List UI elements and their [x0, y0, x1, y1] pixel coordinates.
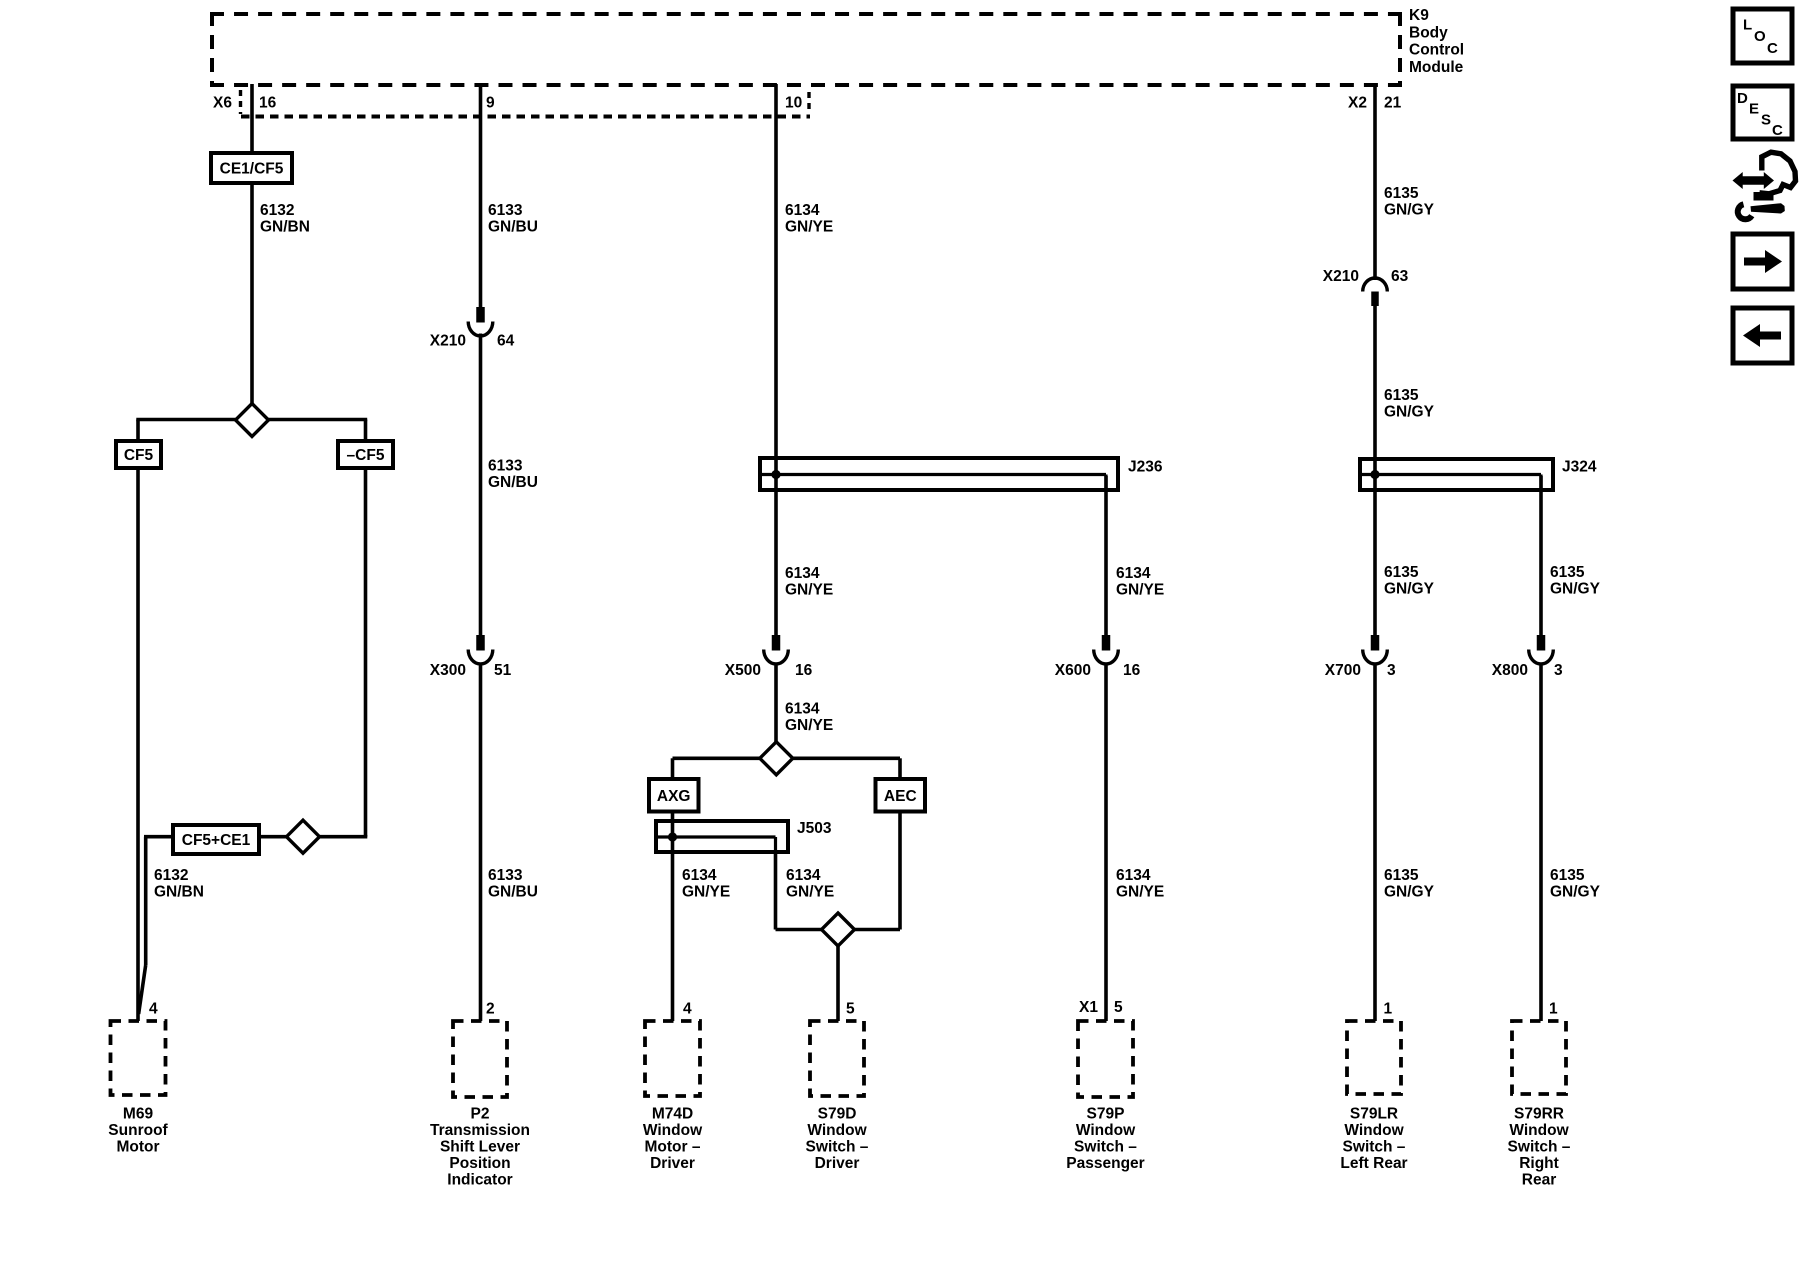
svg-text:4: 4 — [683, 1001, 692, 1018]
svg-text:Driver: Driver — [650, 1155, 695, 1172]
wire horizontal split to CF5 / -CF5 — [136, 418, 367, 422]
wire 6134 J236 to X600 — [1104, 476, 1108, 636]
wire 6133 X210 to X300 — [479, 334, 483, 637]
svg-text:X500: X500 — [725, 662, 761, 679]
svg-text:Control: Control — [1409, 42, 1464, 59]
wire label 6135 GN/GY left lower — [1384, 867, 1435, 901]
svg-text:GN/YE: GN/YE — [1116, 884, 1164, 901]
svg-text:6134: 6134 — [682, 867, 717, 884]
circuit label AXG — [649, 779, 699, 812]
svg-text:Body: Body — [1409, 24, 1448, 41]
component M74D Window Motor - Driver — [643, 1021, 703, 1172]
wire label 6134 GN/YE below J503 left — [682, 867, 730, 901]
wire 6135 X210 through J324 to X700 — [1373, 305, 1377, 636]
svg-text:S79D: S79D — [818, 1106, 857, 1123]
circuit label AEC — [876, 779, 926, 812]
icon DESC button — [1733, 86, 1792, 139]
svg-text:K9: K9 — [1409, 7, 1429, 24]
circuit label CF5+CE1 — [173, 825, 259, 854]
wire label 6133 GN/BU middle — [488, 458, 538, 492]
svg-text:9: 9 — [486, 95, 495, 112]
svg-text:C: C — [1772, 122, 1783, 139]
svg-text:6135: 6135 — [1384, 387, 1419, 404]
wire label 6134 GN/YE above diamond — [785, 701, 833, 735]
svg-text:6134: 6134 — [785, 202, 820, 219]
wire label 6135 GN/GY left mid — [1384, 564, 1435, 598]
wire 6134 from pin 10 through J236 to X500 — [774, 84, 778, 636]
svg-text:AEC: AEC — [884, 788, 917, 805]
svg-text:J236: J236 — [1128, 459, 1163, 476]
wire -CF5 down to CF5+CE1 diamond — [319, 467, 367, 837]
connector X300 pin 51 — [430, 635, 512, 679]
wire label 6133 GN/BU upper — [488, 202, 538, 236]
connector X700 pin 3 — [1325, 635, 1396, 679]
wire label 6133 GN/BU lower — [488, 867, 538, 901]
svg-text:S79RR: S79RR — [1514, 1106, 1564, 1123]
wire label 6134 GN/YE to S79P — [1116, 867, 1164, 901]
pin label X6 16 — [213, 95, 277, 112]
wire CF5 down to M69 pin 4 — [136, 467, 140, 1021]
wire elbow down to -CF5 — [364, 420, 368, 443]
svg-text:Passenger: Passenger — [1066, 1155, 1144, 1172]
svg-text:5: 5 — [1114, 999, 1123, 1016]
connector X600 pin 16 — [1055, 635, 1141, 679]
svg-text:CF5+CE1: CF5+CE1 — [182, 832, 251, 849]
pin X1 5 at S79P — [1079, 999, 1123, 1016]
svg-text:GN/YE: GN/YE — [682, 884, 730, 901]
wire lower diamond to S79D pin 5 — [836, 945, 840, 1021]
wire 6133 X300 to P2 pin 2 — [479, 664, 483, 1022]
svg-text:Window: Window — [1076, 1122, 1136, 1139]
svg-text:O: O — [1754, 28, 1766, 45]
svg-text:–CF5: –CF5 — [347, 447, 385, 464]
wire label 6132 GN/BN lower — [154, 867, 204, 901]
wire 6133 from pin 9 to X210 — [479, 84, 483, 307]
svg-text:Driver: Driver — [815, 1155, 860, 1172]
svg-text:C: C — [1767, 40, 1778, 57]
svg-text:Motor –: Motor – — [645, 1139, 701, 1156]
svg-text:6133: 6133 — [488, 867, 523, 884]
svg-text:2: 2 — [486, 1001, 495, 1018]
svg-text:GN/BN: GN/BN — [154, 884, 204, 901]
svg-text:3: 3 — [1387, 662, 1396, 679]
wire label 6134 GN/YE left mid — [785, 565, 833, 599]
svg-text:6135: 6135 — [1550, 867, 1585, 884]
svg-text:X600: X600 — [1055, 662, 1091, 679]
svg-text:16: 16 — [795, 662, 813, 679]
splice diamond above AXG/AEC — [760, 742, 793, 775]
svg-text:GN/GY: GN/GY — [1550, 884, 1601, 901]
svg-text:Window: Window — [807, 1122, 867, 1139]
icon jump-to-wiring (double arrow, connector outline, wrench) — [1733, 152, 1796, 219]
wire AXG through J503 to M74D pin 4 — [671, 810, 675, 1021]
circuit label -CF5 — [338, 441, 393, 468]
splice diamond below CE1/CF5 — [236, 404, 269, 437]
svg-text:S: S — [1761, 112, 1771, 129]
svg-text:3: 3 — [1554, 662, 1563, 679]
svg-text:Motor: Motor — [116, 1139, 159, 1156]
splice diamond CF5+CE1 — [287, 820, 320, 853]
svg-text:X700: X700 — [1325, 662, 1361, 679]
icon forward arrow button — [1733, 234, 1792, 289]
svg-text:S79LR: S79LR — [1350, 1106, 1398, 1123]
svg-text:E: E — [1749, 101, 1759, 118]
svg-text:6135: 6135 — [1384, 564, 1419, 581]
svg-text:Switch –: Switch – — [806, 1139, 869, 1156]
svg-text:Window: Window — [1344, 1122, 1404, 1139]
svg-text:64: 64 — [497, 333, 515, 350]
pin label 9 — [486, 95, 495, 112]
wire label 6135 GN/GY upper — [1384, 185, 1435, 219]
wire AEC down to lower diamond — [853, 810, 900, 930]
svg-text:GN/BU: GN/BU — [488, 219, 538, 236]
svg-text:GN/YE: GN/YE — [785, 219, 833, 236]
svg-text:GN/BU: GN/BU — [488, 884, 538, 901]
pin 5 at S79D — [846, 1001, 855, 1018]
pin 1 at S79LR — [1384, 1001, 1393, 1018]
svg-text:X2: X2 — [1348, 95, 1367, 112]
pin label 10 — [785, 95, 802, 112]
svg-text:GN/GY: GN/GY — [1384, 884, 1435, 901]
svg-text:GN/BU: GN/BU — [488, 474, 538, 491]
svg-text:63: 63 — [1391, 268, 1409, 285]
svg-text:6133: 6133 — [488, 458, 523, 475]
component M69 Sunroof Motor — [108, 1021, 168, 1156]
wire 6135 J324 to X800 — [1539, 476, 1543, 636]
splice pack J236 — [760, 458, 1163, 490]
svg-text:4: 4 — [149, 1001, 158, 1018]
svg-text:S79P: S79P — [1087, 1106, 1125, 1123]
pin 1 at S79RR — [1549, 1001, 1558, 1018]
splice pack J503 — [656, 820, 832, 852]
wire split to AXG / AEC — [673, 758, 901, 780]
svg-text:Rear: Rear — [1522, 1172, 1556, 1189]
svg-text:GN/YE: GN/YE — [786, 884, 834, 901]
component S79LR Window Switch - Left Rear — [1340, 1021, 1407, 1172]
svg-text:GN/YE: GN/YE — [785, 717, 833, 734]
circuit label CF5 — [116, 441, 161, 468]
svg-text:GN/GY: GN/GY — [1384, 202, 1435, 219]
svg-text:X210: X210 — [1323, 268, 1359, 285]
svg-text:GN/GY: GN/GY — [1384, 581, 1435, 598]
wire label 6134 GN/YE upper — [785, 202, 833, 236]
wire label 6135 GN/GY right mid — [1550, 564, 1601, 598]
svg-text:6135: 6135 — [1384, 185, 1419, 202]
wire label 6132 GN/BN upper — [260, 202, 310, 236]
svg-text:J503: J503 — [797, 820, 832, 837]
splice diamond above S79D — [822, 913, 855, 946]
svg-text:6134: 6134 — [786, 867, 821, 884]
component S79P Window Switch - Passenger — [1066, 1021, 1144, 1172]
svg-text:GN/GY: GN/GY — [1550, 581, 1601, 598]
svg-text:AXG: AXG — [657, 788, 691, 805]
svg-text:GN/GY: GN/GY — [1384, 404, 1435, 421]
BCM X6 connector strip (dotted outline) — [241, 90, 811, 117]
wire 6132 from X6-16 to CE1/CF5 and diamond — [250, 84, 254, 405]
svg-text:Left Rear: Left Rear — [1340, 1155, 1407, 1172]
wire CF5+CE1 left elbow down to pin 4 — [139, 837, 174, 1014]
splice pack J324 — [1360, 459, 1597, 491]
svg-text:Shift Lever: Shift Lever — [440, 1139, 520, 1156]
wire 6135 X800 to S79RR pin 1 — [1539, 664, 1543, 1022]
svg-text:Module: Module — [1409, 59, 1464, 76]
svg-text:X300: X300 — [430, 662, 466, 679]
svg-text:X6: X6 — [213, 95, 232, 112]
svg-text:GN/YE: GN/YE — [1116, 582, 1164, 599]
svg-text:6134: 6134 — [1116, 565, 1151, 582]
svg-text:CE1/CF5: CE1/CF5 — [220, 161, 284, 178]
svg-text:Window: Window — [643, 1122, 703, 1139]
svg-text:D: D — [1737, 90, 1748, 107]
svg-text:21: 21 — [1384, 95, 1402, 112]
svg-text:GN/YE: GN/YE — [785, 582, 833, 599]
wire label 6135 GN/GY below X210 — [1384, 387, 1435, 421]
wire 6134 X600 to S79P pin 5 — [1104, 664, 1108, 1022]
svg-text:6135: 6135 — [1550, 564, 1585, 581]
connector X500 pin 16 — [725, 635, 813, 679]
svg-text:P2: P2 — [471, 1106, 490, 1123]
wire CF5+CE1 box to diamond — [259, 835, 287, 839]
svg-text:Sunroof: Sunroof — [108, 1122, 168, 1139]
svg-text:6134: 6134 — [1116, 867, 1151, 884]
wire label 6134 GN/YE right mid — [1116, 565, 1164, 599]
svg-text:Switch –: Switch – — [1343, 1139, 1406, 1156]
svg-text:6132: 6132 — [260, 202, 294, 219]
svg-text:GN/BN: GN/BN — [260, 219, 310, 236]
connector X800 pin 3 — [1492, 635, 1563, 679]
pin 2 at P2 — [486, 1001, 495, 1018]
svg-text:X210: X210 — [430, 333, 466, 350]
svg-text:X800: X800 — [1492, 662, 1528, 679]
pin 4 at M69 — [149, 1001, 158, 1018]
svg-text:6134: 6134 — [785, 565, 820, 582]
svg-text:6134: 6134 — [785, 701, 820, 718]
wire 6135 X700 to S79LR pin 1 — [1373, 664, 1377, 1022]
pin label X2 21 — [1348, 95, 1402, 112]
svg-text:Window: Window — [1509, 1122, 1569, 1139]
svg-text:Position: Position — [449, 1155, 510, 1172]
svg-text:1: 1 — [1549, 1001, 1558, 1018]
svg-text:6132: 6132 — [154, 867, 188, 884]
svg-text:Indicator: Indicator — [447, 1172, 512, 1189]
svg-text:Switch –: Switch – — [1074, 1139, 1137, 1156]
svg-text:M69: M69 — [123, 1106, 154, 1123]
fuse label CE1/CF5 — [211, 153, 292, 183]
wire elbow down to CF5 — [136, 420, 140, 443]
svg-text:6133: 6133 — [488, 202, 523, 219]
svg-text:CF5: CF5 — [124, 447, 154, 464]
component P2 Transmission Shift Lever Position Indicator — [430, 1021, 530, 1189]
svg-text:6135: 6135 — [1384, 867, 1419, 884]
svg-text:L: L — [1743, 17, 1752, 34]
svg-text:16: 16 — [1123, 662, 1141, 679]
module K9 Body Control Module (dashed box) — [210, 7, 1464, 87]
connector X210 pin 64 — [430, 307, 515, 350]
wire label 6134 GN/YE below J503 right — [786, 867, 834, 901]
svg-text:Right: Right — [1519, 1155, 1559, 1172]
svg-text:M74D: M74D — [652, 1106, 693, 1123]
wire 6135 from X2-21 to X210 — [1373, 84, 1377, 280]
wire 6134 X500 to splice diamond — [774, 664, 778, 743]
svg-text:X1: X1 — [1079, 999, 1098, 1016]
connector X210 pin 63 — [1323, 268, 1409, 306]
svg-text:1: 1 — [1384, 1001, 1393, 1018]
svg-text:J324: J324 — [1562, 459, 1597, 476]
pin 4 at M74D — [683, 1001, 692, 1018]
component S79D Window Switch - Driver — [806, 1021, 869, 1172]
svg-text:16: 16 — [259, 95, 277, 112]
svg-text:Switch –: Switch – — [1508, 1139, 1571, 1156]
svg-text:Transmission: Transmission — [430, 1122, 530, 1139]
svg-text:51: 51 — [494, 662, 512, 679]
icon back arrow button — [1733, 308, 1792, 363]
svg-text:10: 10 — [785, 95, 802, 112]
icon LOC button — [1733, 9, 1792, 63]
wire label 6135 GN/GY right lower — [1550, 867, 1601, 901]
component S79RR Window Switch - Right Rear — [1508, 1021, 1571, 1189]
svg-text:5: 5 — [846, 1001, 855, 1018]
wire J503 tap to lower diamond — [776, 852, 824, 930]
